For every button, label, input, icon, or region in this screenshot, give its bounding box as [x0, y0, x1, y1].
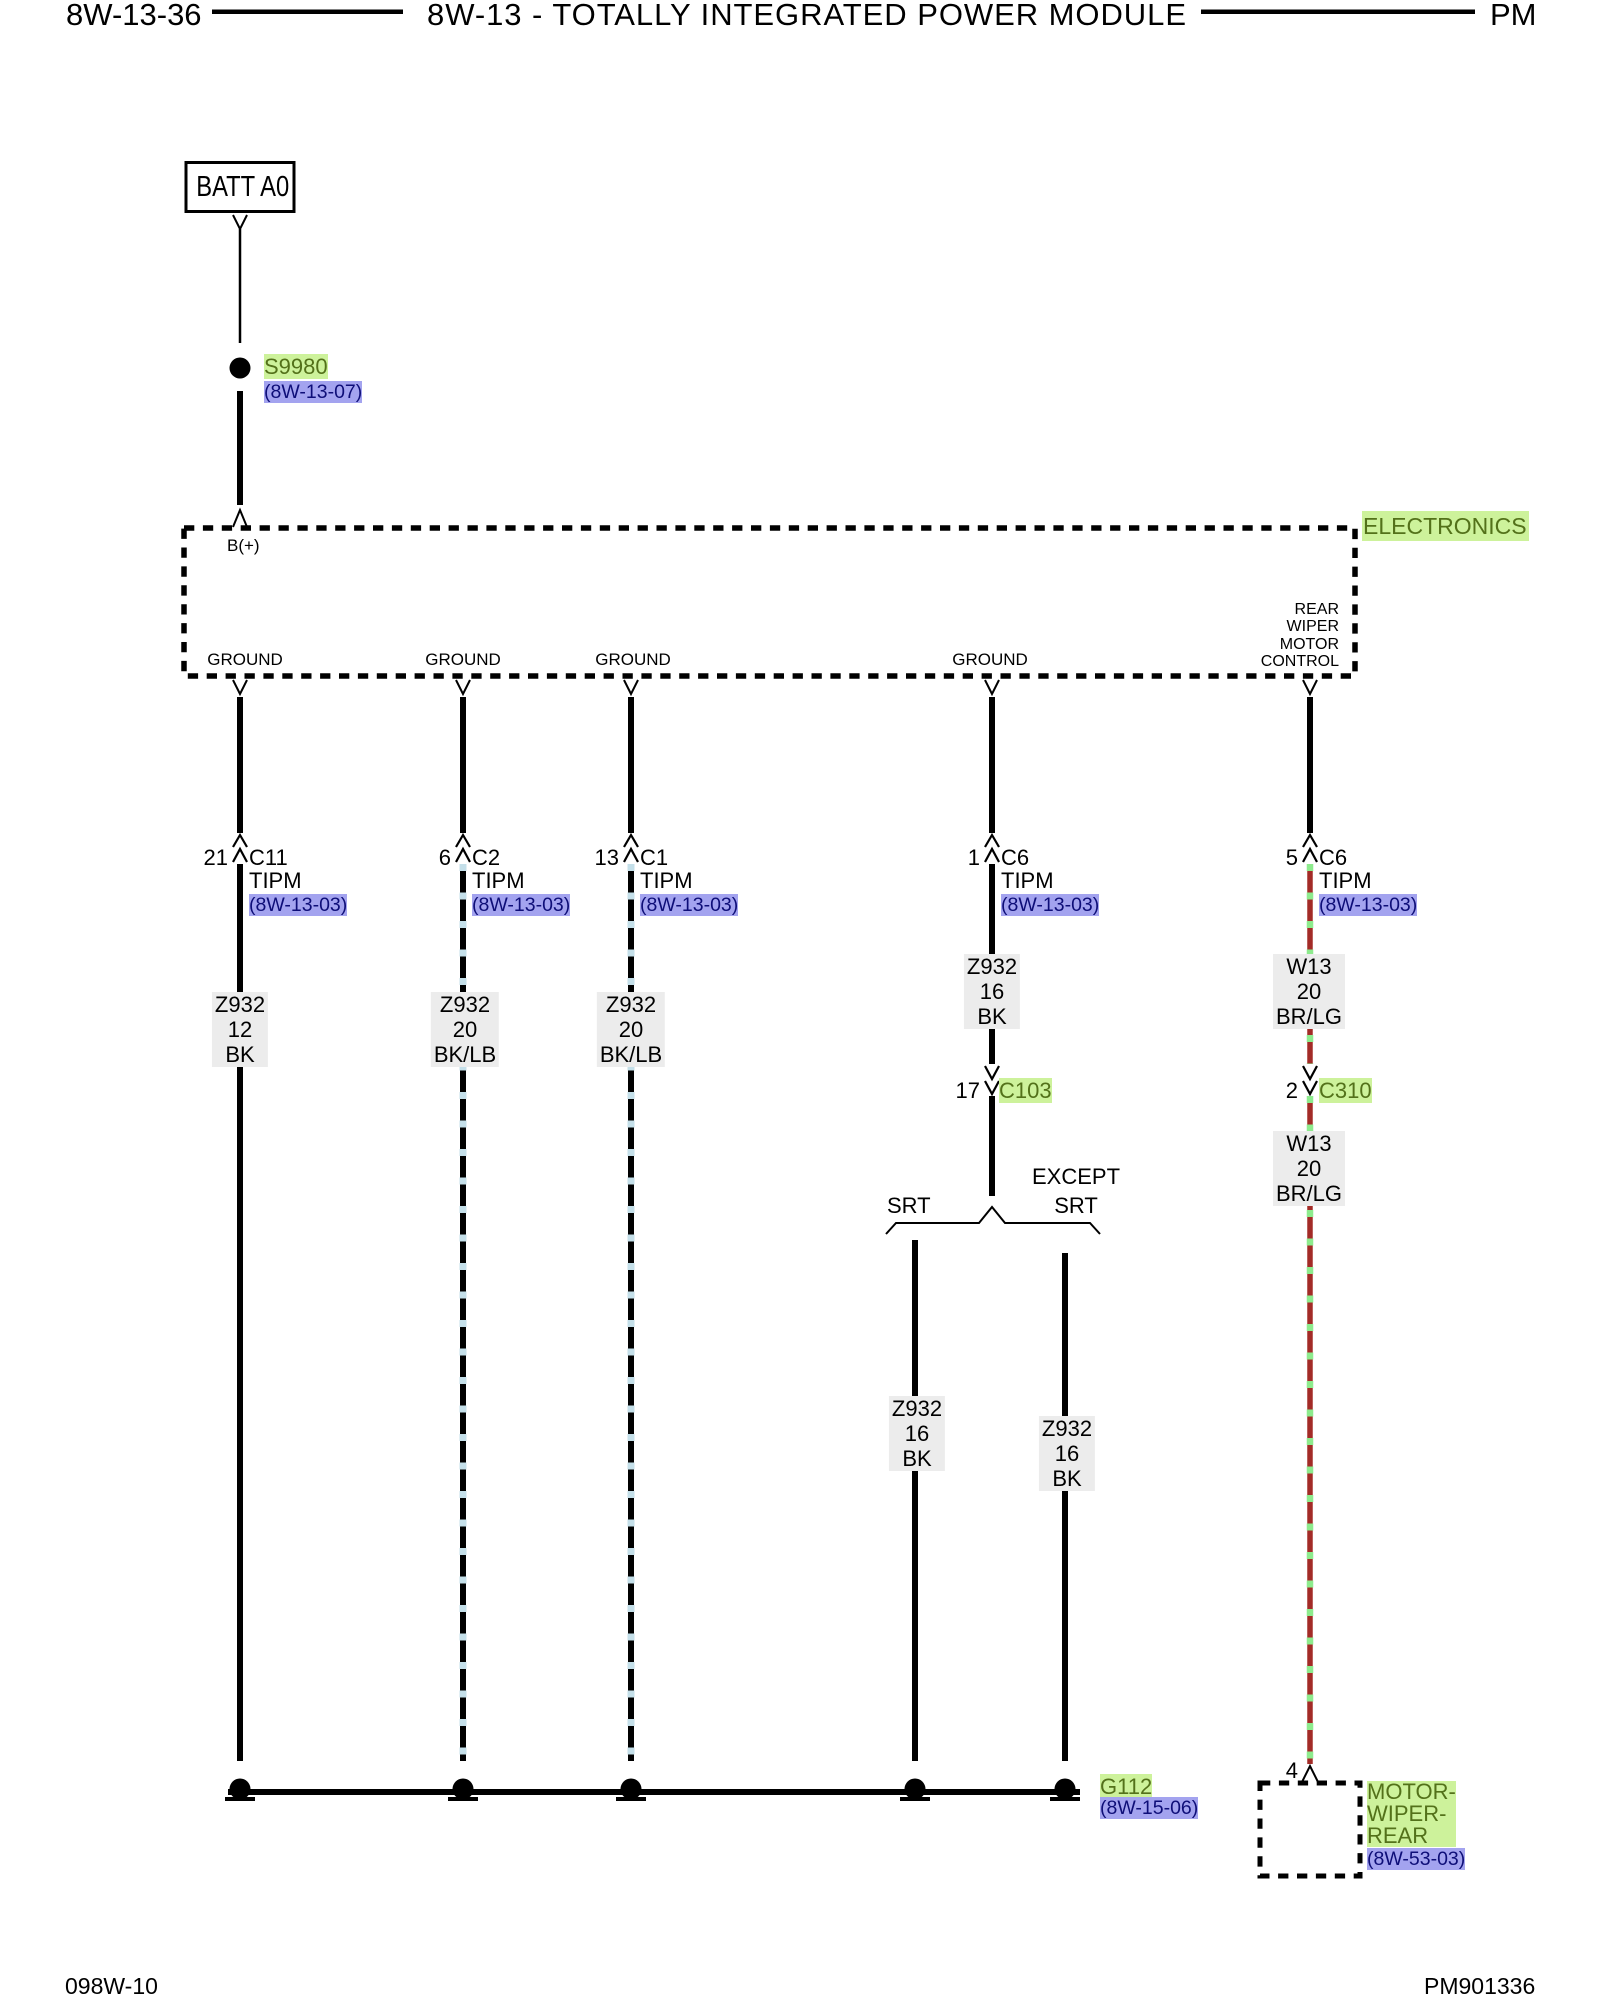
sheet title	[427, 0, 1187, 30]
chevron out of ground pin 21	[233, 680, 247, 694]
wire label W13 20 BR/LG (lower)	[1273, 1131, 1345, 1206]
connector C2 TIPM label	[472, 846, 570, 917]
wire Z932 20 BK/LB upper segment (TIPM to C2)	[460, 697, 466, 833]
splice S9980	[230, 358, 251, 379]
node B(+) label	[227, 537, 260, 555]
page number 8W-13-36	[66, 0, 202, 30]
in-line connector C103 label	[999, 1079, 1052, 1103]
splice dot SRT branch to G112	[905, 1779, 926, 1800]
splice dot wire3 to G112	[621, 1779, 642, 1800]
wire W13 upper segment (TIPM to C6)	[1307, 697, 1313, 833]
wire label W13 20 BR/LG (upper)	[1273, 954, 1345, 1029]
connector C2 double chevron	[456, 835, 470, 847]
connector C6 double chevron (rear wiper)	[1303, 835, 1317, 847]
ELECTRONICS module label	[1362, 511, 1529, 541]
ground bus G112	[228, 1789, 1080, 1795]
splice S9980 label	[264, 355, 362, 404]
pin 2	[1238, 1079, 1298, 1103]
connector C1 TIPM label	[640, 846, 738, 917]
MOTOR-WIPER-REAR component label	[1367, 1781, 1465, 1870]
pin 5	[1238, 846, 1298, 870]
footer sheet code 098W-10	[65, 1975, 158, 1997]
REAR WIPER MOTOR CONTROL pin label	[1199, 601, 1339, 670]
pin 4	[1238, 1759, 1298, 1783]
option split brace SRT / EXCEPT SRT	[886, 1207, 1100, 1234]
wire W13 20 BR/LG segment from C310 to motor	[1307, 1096, 1313, 1764]
pin 21	[168, 846, 228, 870]
footer part number PM901336	[1424, 1975, 1535, 1997]
EXCEPT SRT option label	[1032, 1162, 1120, 1220]
connector C6 TIPM label	[1001, 846, 1099, 917]
chevron out of ground pin 1	[985, 680, 999, 694]
chevron arrow into TIPM at B(+)	[233, 510, 247, 527]
wire label Z932 16 BK (except-SRT branch)	[1039, 1416, 1095, 1491]
connector C1 double chevron	[624, 835, 638, 847]
wire W13 20 BR/LG segment to C310	[1307, 864, 1313, 1064]
ground G112 label	[1100, 1777, 1198, 1818]
wire A0 thick segment from splice S9980 to TIPM B(+)	[237, 391, 243, 505]
wire Z932 16 BK segment to C103	[989, 864, 995, 1064]
in-line connector C310 double chevron	[1303, 1066, 1317, 1079]
MOTOR-WIPER-REAR dashed box	[1260, 1783, 1360, 1876]
GROUND pin label 4	[952, 651, 1028, 669]
wire Z932 16 BK upper segment (TIPM to C6)	[989, 697, 995, 833]
TIPM ELECTRONICS dashed module box	[184, 528, 1355, 676]
chevron out of ground pin 6	[456, 680, 470, 694]
connector C11 double chevron	[233, 835, 247, 847]
wire Z932 16 BK segment from C103 to split	[989, 1096, 995, 1196]
GROUND pin label 3	[595, 651, 671, 669]
fuse box B+ feed: BATT A0 box	[186, 163, 294, 212]
BATT A0 box label	[186, 172, 294, 202]
pin 1	[920, 846, 980, 870]
wire Z932 16 BK SRT branch	[912, 1240, 918, 1761]
header rule left	[212, 10, 403, 15]
chevron into motor-wiper-rear pin 4	[1302, 1766, 1318, 1782]
chevron out of ground pin 13	[624, 680, 638, 694]
wire label Z932 16 BK (SRT branch)	[889, 1396, 945, 1471]
wire Z932 16 BK except-SRT branch	[1062, 1253, 1068, 1761]
wire A0 thin segment from BATT A0 to splice	[239, 229, 242, 343]
splice dot wire1 to G112	[230, 1779, 251, 1800]
splice dot wire2 to G112	[453, 1779, 474, 1800]
pin 13	[559, 846, 619, 870]
connector C6 double chevron	[985, 835, 999, 847]
splice dot except-SRT branch to G112	[1055, 1779, 1076, 1800]
header rule right	[1201, 10, 1475, 15]
wire label Z932 20 BK/LB (wire 3)	[597, 992, 665, 1067]
SRT option label	[887, 1194, 931, 1217]
wire Z932 20 BK/LB upper segment (TIPM to C1)	[628, 697, 634, 833]
in-line connector C310 label	[1319, 1079, 1372, 1103]
pin 17	[920, 1079, 980, 1103]
wire Z932 12 BK main run to G112	[237, 864, 243, 1761]
connector C6 TIPM label (rear wiper)	[1319, 846, 1417, 917]
wire label Z932 12 BK	[212, 992, 268, 1067]
chevron out of rear wiper motor control pin 5	[1303, 680, 1317, 694]
wire Z932 20 BK/LB main run to G112	[460, 864, 466, 1761]
pin 6	[391, 846, 451, 870]
wire label Z932 16 BK (wire 4)	[964, 954, 1020, 1029]
in-line connector C103 double chevron	[985, 1066, 999, 1079]
wire label Z932 20 BK/LB (wire 2)	[431, 992, 499, 1067]
wire Z932 12 BK upper segment (TIPM to C11)	[237, 697, 243, 833]
GROUND pin label 2	[425, 651, 501, 669]
wire Z932 20 BK/LB main run to G112	[628, 864, 634, 1761]
connector C11 TIPM label	[249, 846, 347, 917]
header PM	[1490, 0, 1537, 30]
GROUND pin label 1	[207, 651, 283, 669]
connector chevron below BATT A0 box	[233, 215, 247, 229]
